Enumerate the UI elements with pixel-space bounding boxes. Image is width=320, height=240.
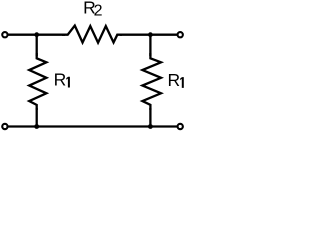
wire left upper stub xyxy=(36,35,38,56)
junction node bottom-right xyxy=(148,124,153,129)
wire right upper stub xyxy=(149,35,151,56)
terminal top-left xyxy=(2,32,7,37)
wire bottom segment xyxy=(8,125,178,127)
wire left lower stub xyxy=(36,108,38,127)
svg-text:2: 2 xyxy=(94,3,103,20)
label R1 (right) subscript 1 xyxy=(180,77,184,88)
wire right lower stub xyxy=(149,108,151,127)
junction node top-right xyxy=(148,32,153,37)
svg-text:R: R xyxy=(168,70,181,90)
resistor R1 (right) xyxy=(142,53,161,110)
terminal bottom-right xyxy=(178,124,183,129)
resistor R2 xyxy=(62,26,122,43)
junction node top-left xyxy=(34,32,39,37)
terminal top-right xyxy=(178,32,183,37)
svg-text:R: R xyxy=(54,70,67,90)
junction node bottom-left xyxy=(34,124,39,129)
resistor R1 (left) xyxy=(29,53,46,110)
wire top-left segment xyxy=(8,34,65,36)
wire top-right segment xyxy=(120,34,178,36)
label R1 (left) subscript 1 xyxy=(66,77,70,88)
terminal bottom-left xyxy=(2,124,7,129)
